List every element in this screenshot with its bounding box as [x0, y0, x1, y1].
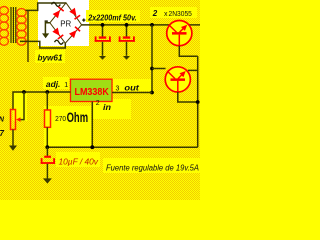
svg-text:2x2200mf 50v.: 2x2200mf 50v.	[87, 12, 136, 22]
junction dot R1 top	[45, 90, 49, 94]
capacitor C1 lead	[102, 25, 104, 37]
Q1 base wire	[179, 46, 197, 57]
transformer core	[11, 7, 16, 43]
minus output wire of bridge	[45, 23, 50, 34]
svg-text:PR: PR	[60, 19, 71, 28]
resistor R1 body	[45, 110, 51, 127]
svg-text:adj.: adj.	[46, 80, 61, 89]
R1 bottom lead	[46, 127, 48, 147]
capacitor C3 10uF top lead	[46, 147, 48, 156]
ground (C1)	[99, 56, 106, 60]
capacitor C2 lead	[126, 25, 128, 37]
potentiometer P1 body	[11, 110, 16, 130]
svg-text:byw61: byw61	[38, 54, 64, 63]
adj rail wire	[13, 92, 71, 110]
svg-text:Ohm: Ohm	[67, 110, 89, 125]
solid label boxes	[13, 7, 200, 173]
bridge rectifier PR diamond outline	[50, 3, 82, 43]
svg-text:2N3055: 2N3055	[169, 9, 192, 18]
transistor Q2 2N3055	[165, 67, 190, 92]
bottom rail wire	[47, 146, 197, 148]
riser wire x152	[151, 25, 153, 93]
capacitor C3 (10uF)	[41, 156, 55, 164]
LM338 pin2 wire	[91, 102, 93, 148]
white panel behind bridge rectifier	[38, 0, 89, 46]
secondary return wire / stub	[27, 11, 29, 62]
wire: secondary top lead to bridge	[26, 3, 67, 10]
Q2 emitter wire	[188, 69, 198, 71]
C1 lower lead	[102, 42, 104, 56]
right vertical wire	[197, 56, 199, 147]
svg-text:LM338K: LM338K	[75, 87, 110, 98]
junction dot out rail	[150, 91, 154, 95]
Q2 base wire	[178, 92, 198, 102]
AC tilde bottom	[55, 40, 64, 44]
diode D1 top-left	[53, 6, 65, 18]
svg-text:3: 3	[116, 86, 120, 93]
transformer T1 secondary coil	[17, 9, 26, 46]
transformer T1 primary coil	[0, 7, 8, 46]
wire: secondary bottom lead to bridge	[20, 41, 65, 48]
ground (C3)	[43, 178, 52, 183]
svg-text:10µF / 40v: 10µF / 40v	[59, 157, 100, 166]
svg-text:1: 1	[64, 82, 68, 89]
svg-text:270: 270	[55, 114, 66, 123]
junction dot bottom rail left	[45, 145, 49, 149]
svg-text:7: 7	[0, 129, 5, 138]
junction dot pin2	[90, 145, 94, 149]
pot bottom lead	[12, 130, 14, 147]
junction dot C1	[101, 23, 105, 27]
ground (pot)	[9, 146, 17, 151]
junction dot right vertical	[196, 100, 200, 104]
svg-text:x: x	[164, 11, 168, 18]
resistor R1 270 top lead	[46, 92, 48, 110]
capacitor C2 (2200mf)	[119, 36, 135, 41]
junction dot Q2 collector wire	[150, 67, 154, 71]
ground (C2)	[123, 56, 130, 60]
svg-text:2: 2	[96, 100, 100, 107]
svg-text:2: 2	[152, 9, 158, 18]
junction dot wiper	[22, 90, 26, 94]
AC tilde top	[52, 2, 61, 6]
C3 bottom lead	[46, 164, 48, 179]
top rail wire (+)	[82, 24, 200, 26]
junction dot C2	[125, 23, 129, 27]
diode D3 bottom-left	[52, 28, 63, 40]
out rail wire	[112, 92, 152, 94]
transistor Q1 2N3055	[167, 20, 192, 45]
capacitor C1 (2200mf)	[95, 36, 111, 41]
plus sign	[82, 19, 85, 22]
junction dot top rail / out riser	[150, 23, 154, 27]
minus sign	[45, 20, 48, 22]
wire to Q2 collector	[152, 68, 166, 70]
wiper arrow	[16, 117, 21, 122]
ground (bridge minus)	[42, 33, 49, 38]
diode D4 bottom-right	[69, 26, 81, 38]
potentiometer P1 wiper wire	[20, 92, 25, 120]
svg-text:Fuente regulable de 19v.5A: Fuente regulable de 19v.5A	[106, 162, 199, 172]
regulator U1 LM338K	[71, 79, 113, 101]
C2 lower lead	[126, 42, 128, 56]
svg-text:in: in	[103, 102, 111, 112]
svg-text:out: out	[124, 83, 140, 93]
diode D2 top-right	[69, 8, 80, 20]
